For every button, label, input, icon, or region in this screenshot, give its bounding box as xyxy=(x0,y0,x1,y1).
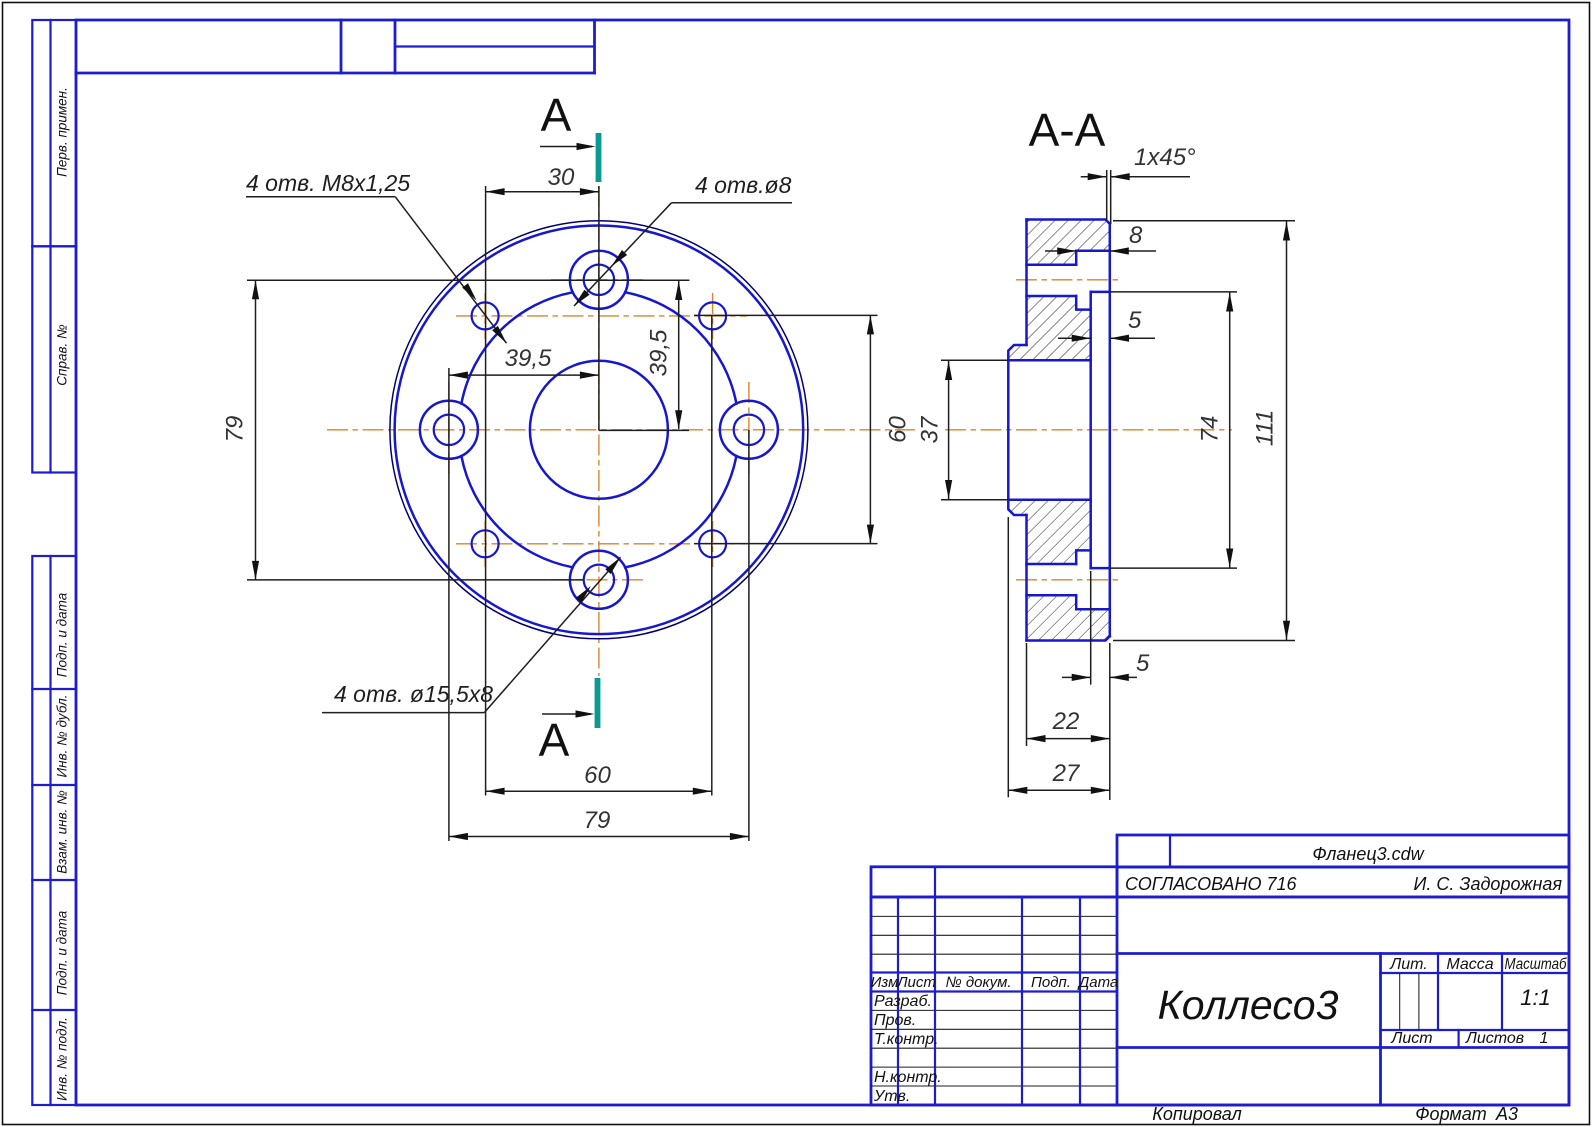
svg-text:№ докум.: № докум. xyxy=(945,974,1011,991)
bottom hole edges xyxy=(1027,563,1077,566)
signature thin rows xyxy=(871,1009,1117,1011)
svg-text:Разраб.: Разраб. xyxy=(874,993,932,1010)
svg-text:Пров.: Пров. xyxy=(874,1012,916,1029)
counterbore circle left hole xyxy=(420,401,478,459)
outer circle thin xyxy=(390,221,808,639)
svg-text:Фланец3.cdw: Фланец3.cdw xyxy=(1312,844,1424,864)
dim 1x45 xyxy=(1081,176,1107,178)
ext line y=579.9 xyxy=(247,579,583,581)
svg-text:Копировал: Копировал xyxy=(1152,1104,1242,1124)
bore circle left hole xyxy=(434,415,464,445)
dim 27 xyxy=(1008,789,1110,791)
front face edge xyxy=(1109,224,1112,636)
svg-text:111: 111 xyxy=(1251,410,1278,446)
ext line x=448.9 xyxy=(448,368,450,841)
ext lines y=315.4 / 543.6 right xyxy=(694,314,878,316)
bore circle right hole xyxy=(734,415,764,445)
left margin column: group 1 xyxy=(32,20,76,473)
front plate bottom edge xyxy=(1091,567,1110,570)
dim 22 xyxy=(1027,738,1110,740)
cut bar top xyxy=(596,133,602,182)
counterbore circle top hole xyxy=(570,251,628,309)
back face edge lower xyxy=(1025,515,1028,641)
svg-text:4 отв. M8х1,25: 4 отв. M8х1,25 xyxy=(246,170,410,196)
svg-text:Формат: Формат xyxy=(1415,1104,1486,1124)
svg-text:Лит.: Лит. xyxy=(1389,956,1427,973)
dim 111 xyxy=(1286,221,1288,641)
cut bar bottom xyxy=(595,678,601,728)
svg-text:Справ. №: Справ. № xyxy=(55,324,70,386)
centerline section bottom hole xyxy=(1016,579,1122,581)
file name plate box xyxy=(1117,835,1569,867)
outline bottom edge xyxy=(1027,636,1110,640)
svg-text:1:1: 1:1 xyxy=(1520,985,1551,1010)
svg-text:60: 60 xyxy=(884,416,911,443)
crosshair left hole xyxy=(448,382,450,478)
crosshair top hole xyxy=(551,279,647,281)
svg-text:Подп. и дата: Подп. и дата xyxy=(55,910,70,995)
svg-text:39,5: 39,5 xyxy=(505,345,552,372)
small hole top-right xyxy=(699,302,726,329)
central bore circle xyxy=(530,361,668,499)
svg-text:Н.контр.: Н.контр. xyxy=(874,1069,942,1086)
bore edge bottom xyxy=(1008,499,1090,502)
dim 8 xyxy=(1045,250,1076,252)
dim 111 ext lines xyxy=(1113,220,1295,222)
svg-text:А3: А3 xyxy=(1495,1104,1518,1124)
main title block outer xyxy=(871,897,1569,1105)
svg-text:Лист: Лист xyxy=(1390,1030,1432,1047)
dim 79 left (vertical) xyxy=(255,280,257,580)
top-left header table xyxy=(76,20,595,73)
ext line x=748.9 xyxy=(748,430,750,841)
ext line x=598.9 upper xyxy=(598,186,600,431)
crosshair right hole xyxy=(748,382,750,478)
svg-text:Подп.: Подп. xyxy=(1031,974,1071,991)
svg-text:Взам. инв. №: Взам. инв. № xyxy=(55,790,70,874)
svg-text:1: 1 xyxy=(1540,1030,1549,1047)
crosshair bottom hole xyxy=(551,579,647,581)
centerline small holes upper xyxy=(456,315,747,317)
svg-text:A: A xyxy=(539,714,570,766)
header row borders xyxy=(871,971,1117,973)
right part dividers xyxy=(1117,952,1569,955)
centerline section main xyxy=(945,429,1232,431)
centerline horizontal xyxy=(327,429,915,431)
svg-text:4 отв. ø15,5х8: 4 отв. ø15,5х8 xyxy=(334,681,493,707)
bore circle top hole xyxy=(584,265,614,295)
dim 74 ext lines xyxy=(1110,291,1237,293)
svg-text:Лист: Лист xyxy=(896,974,936,991)
dim 39,5 right (vertical) xyxy=(678,281,680,429)
svg-text:Инв. № подл.: Инв. № подл. xyxy=(55,1017,70,1101)
svg-text:5: 5 xyxy=(1136,650,1150,677)
hatch region lower hub xyxy=(1008,500,1090,564)
dim 37 ext lines xyxy=(941,359,1008,361)
svg-text:22: 22 xyxy=(1052,708,1080,735)
svg-text:1х45°: 1х45° xyxy=(1134,144,1196,171)
centerline section top hole xyxy=(1016,279,1122,281)
outer circle thick xyxy=(395,225,804,634)
dim 60 bottom xyxy=(486,790,712,792)
ext line y=430.4 center to right xyxy=(599,429,689,431)
svg-text:27: 27 xyxy=(1052,760,1081,787)
svg-text:30: 30 xyxy=(548,164,575,191)
section plane marks xyxy=(539,89,602,766)
bore edge top xyxy=(1008,359,1090,362)
outline top edge xyxy=(1027,220,1110,224)
centerline small holes lower xyxy=(456,543,747,545)
approval strip xyxy=(1117,867,1569,897)
svg-text:4 отв.ø8: 4 отв.ø8 xyxy=(695,172,792,198)
crosshair small holes verticals xyxy=(484,293,486,339)
front plate top edge xyxy=(1091,291,1110,294)
small hole bottom-right xyxy=(699,530,726,557)
svg-text:Т.контр.: Т.контр. xyxy=(874,1031,939,1048)
ext line x=711.8 xyxy=(711,316,713,796)
svg-text:39,5: 39,5 xyxy=(645,329,672,376)
small hole top-left xyxy=(472,302,499,329)
change table thin rows xyxy=(871,915,1117,917)
counterbore circle bottom hole xyxy=(570,551,628,609)
svg-text:37: 37 xyxy=(916,415,943,443)
svg-text:Изм: Изм xyxy=(871,974,899,991)
small hole bottom-left xyxy=(472,530,499,557)
dim 39,5 left xyxy=(449,374,599,376)
hub circle arcs xyxy=(461,292,736,567)
hatch region upper hub xyxy=(1008,296,1090,360)
hatch region bottom rim xyxy=(1027,595,1110,640)
centerline vertical xyxy=(598,186,600,676)
svg-text:74: 74 xyxy=(1196,416,1223,443)
svg-text:Инв. № дубл.: Инв. № дубл. xyxy=(55,694,70,777)
title block verticals xyxy=(897,897,899,1105)
svg-text:Масштаб: Масштаб xyxy=(1505,956,1568,973)
svg-text:Утв.: Утв. xyxy=(873,1088,910,1105)
left margin column: group 2 xyxy=(32,556,76,1105)
dim 5 top xyxy=(1058,337,1091,339)
counterbore pocket bottom xyxy=(1076,550,1110,609)
svg-text:Коллесо3: Коллесо3 xyxy=(1158,982,1339,1028)
TITLE BLOCK xyxy=(871,835,1569,1124)
hatch region top rim xyxy=(1027,220,1110,265)
svg-text:Листов: Листов xyxy=(1465,1030,1524,1047)
dim 5 bottom xyxy=(1062,676,1091,678)
lower ext lines xyxy=(1090,571,1092,685)
bore circle bottom hole xyxy=(584,565,614,595)
dim 60 right (vertical) xyxy=(869,315,871,543)
counterbore pocket top xyxy=(1076,251,1110,310)
view arrow top xyxy=(540,146,592,148)
top hole edges xyxy=(1027,264,1077,267)
svg-text:79: 79 xyxy=(584,807,611,834)
ext line y=280.3 xyxy=(247,279,689,281)
chamfer ext lines xyxy=(1106,170,1108,220)
boss outline xyxy=(1008,345,1026,515)
dim 30 xyxy=(486,191,599,193)
dim 74 xyxy=(1229,292,1231,568)
svg-text:Подп. и дата: Подп. и дата xyxy=(55,592,70,677)
svg-text:Перв. примен.: Перв. примен. xyxy=(55,87,70,177)
view arrow bottom xyxy=(542,713,591,715)
svg-text:A-A: A-A xyxy=(1029,104,1106,156)
svg-text:Масса: Масса xyxy=(1446,956,1493,973)
svg-text:5: 5 xyxy=(1128,307,1142,334)
svg-text:И. С. Задорожная: И. С. Задорожная xyxy=(1414,874,1563,894)
counterbore circle right hole xyxy=(720,401,778,459)
svg-text:СОГЛАСОВАНО 716: СОГЛАСОВАНО 716 xyxy=(1125,874,1298,894)
front plate inner edge xyxy=(1089,292,1092,568)
dim 37 xyxy=(948,360,950,500)
svg-text:79: 79 xyxy=(221,416,248,443)
svg-text:8: 8 xyxy=(1129,222,1143,249)
ext line x=485.6 xyxy=(485,186,487,796)
back face edge upper xyxy=(1025,220,1028,346)
upper-left extension box xyxy=(871,867,1117,897)
svg-text:A: A xyxy=(541,89,572,141)
dim 79 bottom xyxy=(449,836,749,838)
svg-text:Дата: Дата xyxy=(1077,974,1119,991)
svg-text:60: 60 xyxy=(584,762,611,789)
